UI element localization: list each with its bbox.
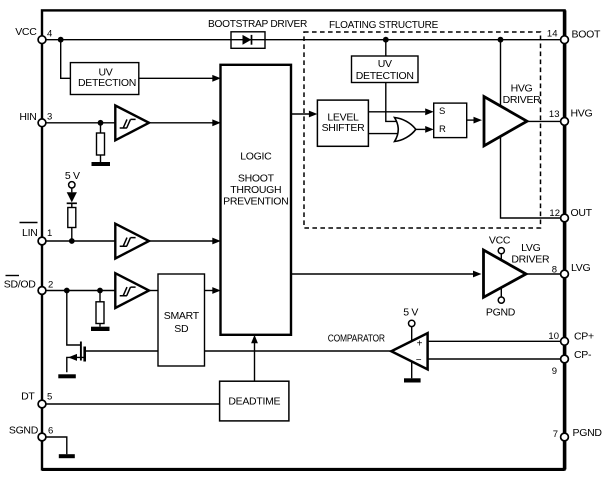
svg-text:1: 1 [47, 228, 52, 239]
svg-text:4: 4 [47, 29, 52, 40]
wire HIN line [42, 122, 115, 124]
svg-text:DRIVER: DRIVER [511, 253, 550, 265]
wire junction to UV detection 2 [385, 40, 387, 56]
wire comparator output to mosfet drain [85, 350, 392, 352]
pin 3 HIN [38, 119, 46, 127]
wire deadtime to logic [254, 343, 256, 382]
LOGIC block [221, 65, 292, 335]
ground G1 [92, 162, 111, 166]
floating structure dashed box [304, 32, 541, 228]
5V terminal circle [69, 182, 75, 188]
node boot rail junction (HVG) [498, 37, 504, 43]
svg-text:DEADTIME: DEADTIME [228, 396, 280, 408]
svg-text:HIN: HIN [19, 111, 36, 123]
PGND stub on LVG driver [500, 287, 502, 297]
svg-text:13: 13 [549, 109, 560, 120]
svg-text:OUT: OUT [571, 207, 593, 219]
svg-text:HVG: HVG [511, 83, 533, 95]
wire CP- line [428, 358, 565, 360]
svg-text:DETECTION: DETECTION [356, 70, 414, 82]
svg-text:+: + [417, 338, 423, 349]
wire CP+ line [428, 340, 565, 342]
svg-text:14: 14 [547, 29, 558, 40]
svg-text:8: 8 [552, 265, 557, 276]
svg-text:3: 3 [47, 112, 52, 123]
svg-text:DETECTION: DETECTION [78, 77, 136, 89]
svg-text:HVG: HVG [571, 108, 593, 120]
HVG driver amp [484, 97, 527, 146]
bootstrap driver box [231, 32, 265, 49]
wire OR gate to R input [416, 128, 425, 130]
pin 9 CP- [561, 355, 569, 363]
svg-text:5 V: 5 V [403, 307, 418, 319]
SMART SD block [158, 274, 205, 366]
wire level shifter to S input [368, 111, 425, 113]
UV detection block U2 [70, 63, 138, 95]
svg-text:5: 5 [47, 392, 52, 403]
svg-text:6: 6 [48, 426, 53, 437]
svg-text:LOGIC: LOGIC [240, 151, 272, 163]
pin 8 LVG [561, 270, 569, 278]
wire HVG driver to pin 13 [527, 120, 565, 122]
wire LVG driver to pin 8 [526, 273, 565, 275]
svg-text:DT: DT [21, 391, 35, 403]
wire schmitt2 to logic [149, 240, 213, 242]
wire SR latch to HVG driver [467, 119, 474, 121]
wire SGND to ground [42, 437, 67, 454]
pin 14 BOOT [561, 36, 569, 44]
svg-text:S: S [439, 106, 445, 117]
ground G2 [91, 327, 110, 331]
schmitt trigger A1 (HIN) [115, 106, 149, 141]
svg-text:PGND: PGND [573, 427, 603, 439]
pin 12 OUT [561, 214, 569, 222]
LVG driver amp [484, 250, 527, 297]
wire UV detection 2 to OR gate [386, 83, 398, 122]
wire SD/OD line [42, 290, 115, 292]
wire smart sd to logic [205, 290, 214, 292]
svg-text:SGND: SGND [9, 425, 39, 437]
svg-text:LVG: LVG [521, 242, 540, 254]
wire LIN line [42, 240, 115, 242]
LEVEL SHIFTER block [317, 100, 368, 146]
resistor R1 [100, 123, 102, 133]
svg-text:VCC: VCC [15, 26, 37, 38]
svg-text:CP+: CP+ [574, 331, 594, 343]
wire HVG driver rail boot to out [501, 40, 565, 218]
svg-text:SHOOT: SHOOT [238, 173, 275, 185]
pin 6 SGND [38, 433, 46, 441]
svg-text:SD/OD: SD/OD [4, 279, 36, 291]
wire logic to LVG driver [291, 273, 473, 275]
svg-text:BOOTSTRAP DRIVER: BOOTSTRAP DRIVER [208, 18, 308, 30]
svg-text:DRIVER: DRIVER [503, 94, 542, 106]
pin 1 LIN [38, 237, 46, 245]
UV detection block U3 (floating) [352, 56, 419, 83]
wire logic to level shifter [291, 113, 310, 115]
svg-text:BOOT: BOOT [572, 29, 601, 41]
SR latch U5 [434, 103, 467, 138]
svg-text:SMART: SMART [164, 310, 200, 322]
wire level shifter to OR gate [368, 133, 397, 135]
diode D1 clamp [71, 188, 73, 193]
svg-text:2: 2 [48, 280, 53, 291]
ground G3 (mosfet) [58, 374, 76, 378]
svg-text:5 V: 5 V [65, 170, 80, 182]
node SD junction 1 [64, 288, 70, 294]
node boot rail junction (UV2) [383, 37, 389, 43]
resistor R2 [71, 203, 73, 207]
wire schmitt3 to smart sd [149, 290, 158, 292]
wire UV detection 1 to logic [139, 77, 213, 79]
svg-text:CP-: CP- [574, 349, 592, 361]
schmitt trigger A2 (LIN) [115, 224, 149, 259]
svg-text:SHIFTER: SHIFTER [322, 122, 366, 134]
svg-text:SD: SD [174, 323, 189, 335]
node SD junction 2 [97, 288, 103, 294]
ground G4 (sgnd) [59, 454, 75, 458]
wire VCC to BOOT top rail [42, 39, 565, 41]
svg-text:9: 9 [552, 366, 557, 377]
pin 2 SD/OD [38, 287, 46, 295]
svg-text:PGND: PGND [486, 307, 516, 319]
svg-text:LIN: LIN [22, 227, 37, 239]
node LIN junction [69, 238, 75, 244]
pin 7 PGND [561, 433, 569, 441]
svg-text:UV: UV [378, 58, 392, 70]
svg-text:THROUGH: THROUGH [230, 184, 281, 196]
node VCC junction [58, 37, 64, 43]
pin 5 DT [38, 400, 46, 408]
wire schmitt1 to logic [149, 122, 213, 124]
schmitt trigger A3 (SD) [115, 273, 149, 308]
resistor R3 [99, 291, 101, 302]
svg-text:12: 12 [549, 208, 560, 219]
wire junction to UV detection 1 [61, 40, 71, 79]
comparator U6 [391, 333, 427, 369]
svg-text:PREVENTION: PREVENTION [223, 196, 288, 208]
svg-text:10: 10 [548, 331, 559, 342]
svg-text:VCC: VCC [489, 235, 511, 247]
node HIN junction [98, 120, 104, 126]
diode D2 bootstrap [243, 35, 252, 45]
wire DT pin to deadtime [42, 403, 220, 405]
svg-text:7: 7 [553, 429, 558, 440]
OR gate U4 [395, 118, 416, 142]
pin 4 VCC [38, 36, 46, 44]
transistor Q1 open-drain mosfet [67, 291, 81, 346]
svg-text:LVG: LVG [571, 262, 590, 274]
svg-text:COMPARATOR: COMPARATOR [328, 333, 386, 345]
DEADTIME block [220, 381, 289, 421]
ground G5 (comparator) [411, 362, 413, 379]
pin 10 CP+ [561, 337, 569, 345]
svg-text:−: − [416, 355, 422, 366]
svg-text:R: R [439, 124, 446, 135]
pin 13 HVG [561, 118, 569, 126]
svg-text:FLOATING STRUCTURE: FLOATING STRUCTURE [329, 19, 438, 31]
